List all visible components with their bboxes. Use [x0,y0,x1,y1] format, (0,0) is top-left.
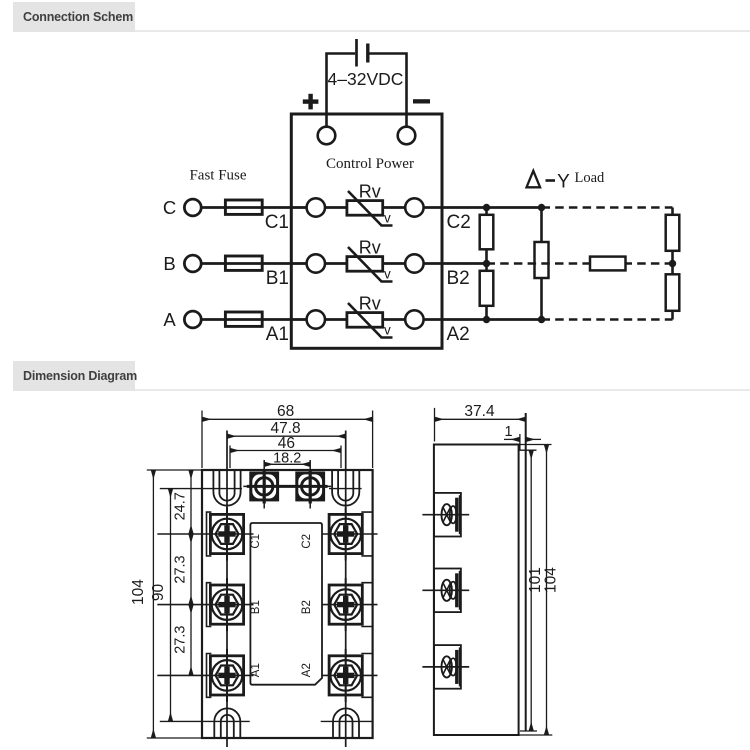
wire box edge to circle [291,318,306,321]
svg-text:A1: A1 [250,663,262,677]
internal terminal circle C2 [405,198,423,216]
minus terminal label [413,99,430,103]
control terminal + circle [318,127,336,145]
svg-text:v: v [384,211,391,226]
main terminal C1 screw [207,512,212,556]
internal terminal circle A2 [405,310,423,328]
slot centre line bottom-left (90 bottom extension) [160,720,250,722]
svg-text:37.4: 37.4 [464,403,495,420]
long centre line right column [345,431,347,748]
row C centre line [157,533,253,535]
varistor RV1 [347,201,383,216]
svg-text:Load: Load [575,170,606,186]
dim 27.3 lower [190,605,192,676]
svg-text:104: 104 [542,567,559,593]
slot centre line left (90 top extension) [160,488,242,490]
svg-text:v: v [384,323,391,338]
svg-text:A: A [163,309,176,330]
side terminal T3 [422,645,469,689]
wire to box edge [424,318,442,321]
Y resistor R5 (C phase) [671,208,674,215]
plus terminal label [303,94,319,110]
dim 1 [519,434,521,450]
wire C to fuse [201,206,225,209]
main terminal A1 screw [207,654,212,698]
fuse F2 [225,256,262,270]
dim 18.2 [264,463,310,465]
junction node C-R3 [538,204,545,211]
centre label plate [250,523,322,685]
dashed wire C row [542,206,673,209]
svg-text:B1: B1 [266,268,289,289]
fuse F3 [225,312,262,326]
label delta-Y Load [527,171,541,188]
svg-text:C2: C2 [447,212,471,233]
svg-text:Rv: Rv [359,238,381,258]
slot centre line right [329,488,362,490]
control terminal - circle [398,127,416,145]
dim 104 extension bottom [147,737,202,739]
dashed wire A row [542,318,673,321]
svg-text:C2: C2 [301,534,313,549]
bottom mounting slot left [214,708,240,738]
svg-text:Y: Y [557,172,570,193]
junction node C-R1 [483,204,490,211]
bottom mounting slot right [333,708,359,738]
base plate edge [525,413,527,731]
svg-text:Control Power: Control Power [326,156,414,172]
battery B1 short plate [366,44,369,63]
junction node B-R1 [483,260,490,267]
wire A to fuse [201,318,225,321]
Y resistor R4 (B phase, horizontal) [590,257,626,271]
wire fuse to box [262,318,293,321]
device body outline [202,470,373,738]
wire to varistor [325,318,347,321]
svg-text:4–32VDC: 4–32VDC [328,69,404,89]
wire box edge to circle [291,262,306,265]
svg-text:Rv: Rv [359,182,381,202]
wire A2 to load [442,318,542,321]
svg-text:B2: B2 [447,268,470,289]
wire to box edge [424,262,442,265]
dim 90 [170,489,172,722]
svg-text:A2: A2 [447,324,470,345]
main terminal B2 screw [361,583,372,627]
svg-text:C1: C1 [250,534,262,549]
dim 46 [229,446,231,469]
terminal C circle [184,199,201,216]
main terminal C2 screw [361,512,372,556]
svg-text:18.2: 18.2 [273,450,301,466]
wire to varistor [325,206,347,209]
side terminal T2 [422,569,469,613]
delta resistor R3 (C-A) [540,208,543,243]
junction node Y star [669,260,676,267]
long centre line left column [226,431,228,748]
wire C2 to load [442,206,542,209]
slot centre line bottom-right [321,720,373,722]
svg-text:C1: C1 [265,212,289,233]
row A centre line [157,674,253,676]
wire fuse to box [262,262,293,265]
dashed wire B row [487,262,673,265]
svg-text:68: 68 [277,403,294,420]
internal terminal circle C1 [307,198,325,216]
dim 104 extension top [147,469,202,471]
svg-text:1: 1 [504,424,512,440]
section header: Dimension Diagram [13,361,135,391]
control terminal screw left [243,460,285,509]
fuse F1 [225,200,262,214]
top mounting slot left [213,470,240,506]
wire box edge to circle [291,206,306,209]
svg-text:90: 90 [150,584,167,602]
dim 24.7 [190,470,192,534]
svg-text:27.3: 27.3 [173,626,189,654]
varistor RV2 [347,257,383,272]
wire to varistor [325,262,347,265]
delta resistor R1 (C-B) [485,208,488,215]
dim 68 [201,411,203,469]
bottom edge extension right [519,734,553,736]
svg-text:B2: B2 [301,600,313,614]
wire fuse to box [262,206,293,209]
main terminal A2 screw [361,654,372,698]
dim 27.3 upper [190,534,192,605]
terminal B circle [184,255,201,272]
svg-text:24.7: 24.7 [173,492,189,520]
dim 37.4 [434,408,436,442]
dim 104 side [546,445,548,736]
dim 47.8 [227,435,346,437]
SSR box U1 [291,114,442,348]
section header: Connection Schem [13,2,135,32]
internal terminal circle B1 [307,254,325,272]
wire B to fuse [201,262,225,265]
side body outline [434,445,519,736]
dim 101 [530,450,532,731]
battery B1 long plate [355,39,358,67]
top mounting slot right [332,470,359,506]
svg-text:v: v [384,267,391,282]
row B centre line [157,604,253,606]
main terminal B1 screw [207,583,212,627]
svg-text:27.3: 27.3 [173,555,189,583]
internal terminal circle A1 [307,310,325,328]
varistor RV3 [347,313,383,328]
wire varistor to circle [383,206,406,209]
svg-text:Fast Fuse: Fast Fuse [189,168,246,184]
wire to box edge [424,206,442,209]
svg-text:104: 104 [130,579,147,605]
control terminal screw right [247,460,331,509]
svg-text:A2: A2 [301,663,313,677]
dim 104 [152,470,154,738]
internal terminal circle B2 [405,254,423,272]
battery B1 wire right [369,54,406,127]
junction node A-R2 [483,316,490,323]
Y resistor R6 (A phase) [671,264,674,275]
wire varistor to circle [383,262,406,265]
delta resistor R2 (B-A) [480,271,494,306]
battery B1 wire left [327,54,356,127]
wire varistor to circle [383,318,406,321]
plate top tick [519,449,537,451]
terminal A circle [184,311,201,328]
svg-text:B: B [163,253,175,274]
side terminal T1 [422,493,469,537]
svg-text:Rv: Rv [359,294,381,314]
plate bottom tick [520,730,537,732]
svg-text:A1: A1 [266,324,289,345]
top edge extension right [519,444,552,446]
wire B2 to load [442,262,487,265]
svg-text:C: C [163,197,176,218]
svg-text:B1: B1 [250,600,262,614]
junction node A-R3 [538,316,545,323]
